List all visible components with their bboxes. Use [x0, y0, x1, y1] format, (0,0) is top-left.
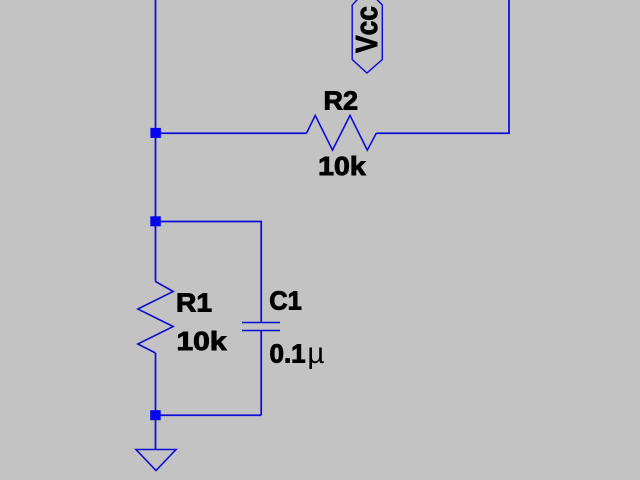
wire: bottom horizontal rail [156, 414, 262, 416]
svg-text:10k: 10k [177, 326, 228, 356]
node junction at (155,220) [150, 216, 161, 226]
wire: top horizontal left segment (node to R2 left lead) [156, 132, 307, 134]
ground symbol [136, 450, 176, 471]
capacitor C1 bottom plate [242, 330, 280, 332]
svg-text:C1: C1 [269, 286, 302, 316]
node junction at (155,415) [150, 410, 161, 420]
wire: left vertical from top edge down to R1 top [155, 0, 157, 282]
wire: R2 right lead to right riser [376, 0, 509, 133]
resistor R2 body (horizontal zigzag) [307, 115, 377, 150]
port flag Vcc (hexagon outline) [352, 0, 382, 73]
svg-text:µ: µ [307, 337, 324, 370]
node junction at (155,132) [150, 128, 161, 138]
resistor R1 body (vertical zigzag) [138, 282, 173, 354]
svg-text:R2: R2 [324, 86, 359, 116]
svg-text:R1: R1 [176, 287, 212, 317]
wire: R1 bottom lead to bottom rail [155, 353, 157, 416]
wire: C1 bottom lead down to bottom rail [260, 331, 262, 416]
svg-text:10k: 10k [318, 151, 366, 181]
svg-text:Vcc: Vcc [349, 6, 384, 53]
wire: ground stub [155, 420, 157, 450]
wire: horizontal to C1 branch top [156, 222, 262, 323]
svg-text:0.1: 0.1 [270, 339, 306, 369]
capacitor C1 top plate [242, 322, 280, 324]
